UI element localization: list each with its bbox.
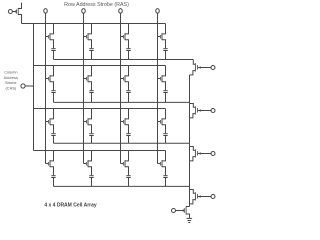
svg-text:Row Address Strobe (RAS): Row Address Strobe (RAS): [64, 2, 129, 8]
svg-text:Address: Address: [4, 75, 18, 80]
svg-text:4 x 4 DRAM Cell Array: 4 x 4 DRAM Cell Array: [44, 202, 97, 208]
svg-text:(CAS): (CAS): [6, 85, 17, 90]
svg-text:Column: Column: [4, 70, 17, 75]
